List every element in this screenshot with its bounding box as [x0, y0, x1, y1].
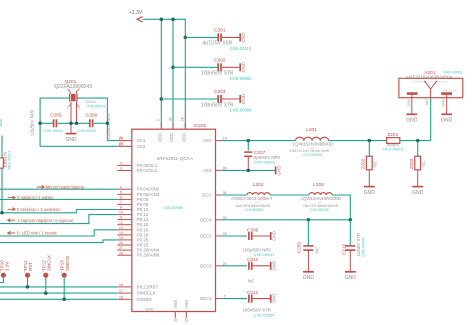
svg-text:12p/50V NP0: 12p/50V NP0 [30, 109, 35, 136]
svg-text:15: 15 [119, 236, 123, 240]
test point TP12 SWCLK [41, 255, 51, 295]
svg-text:13: 13 [119, 226, 123, 230]
svg-text:C211: C211 [247, 257, 258, 263]
svg-text:0- LED sviti / 1-nesviti: 0- LED sviti / 1-nesviti [17, 230, 57, 235]
svg-text:+3.3V: +3.3V [129, 10, 143, 16]
svg-text:28: 28 [119, 251, 123, 255]
svg-text:CIV-00018: CIV-00018 [310, 207, 330, 212]
svg-text:VBAT: VBAT [0, 117, 3, 127]
svg-text:L203: L203 [313, 182, 324, 188]
IC201 right pins [200, 137, 227, 301]
svg-text:ano: ano [241, 299, 245, 301]
capacitor C206 [77, 112, 111, 139]
test point TP13 SWDIO [60, 255, 70, 301]
junction dots on +3.3V rails [160, 18, 188, 101]
pin numbers 23 24 [119, 136, 123, 146]
svg-text:REZ-00001: REZ-00001 [383, 147, 404, 152]
junction dots RF chain [247, 139, 420, 143]
wire ANT pin to RF chain [222, 140, 296, 142]
crystal Q201 [54, 79, 105, 123]
svg-text:GND: GND [272, 231, 277, 241]
svg-text:CIV-00060: CIV-00060 [245, 207, 265, 212]
svg-text:13: 13 [185, 318, 189, 322]
junction dot resistor to row3 [0, 211, 4, 215]
svg-text:14: 14 [119, 231, 123, 235]
inductor L202 [231, 182, 273, 212]
capacitor C208 [222, 227, 277, 257]
power symbol +3.3V [129, 10, 143, 22]
svg-text:GND: GND [442, 99, 446, 107]
capacitor C207 shunt [244, 141, 280, 171]
svg-text:IOB-00080: IOB-00080 [164, 205, 184, 210]
svg-text:C202: C202 [214, 57, 226, 63]
test point TP10 3.3V [0, 260, 10, 283]
capacitor C201 [185, 36, 218, 38]
svg-text:NC: NC [314, 247, 319, 253]
svg-text:ano: ano [241, 237, 245, 239]
svg-text:CXE-00096: CXE-00096 [361, 238, 365, 257]
svg-text:2: 2 [120, 162, 122, 166]
svg-text:3: 3 [120, 167, 122, 171]
wire crystal cap row [40, 122, 107, 124]
svg-text:GND: GND [272, 294, 277, 304]
svg-text:0-nabijeni / 1-nabito: 0-nabijeni / 1-nabito [17, 195, 54, 200]
svg-text:C201: C201 [214, 27, 226, 33]
inductor L203 [301, 182, 342, 212]
svg-text:GND: GND [407, 99, 411, 107]
svg-text:0-stisknuto / 1-uvolneno: 0-stisknuto / 1-uvolneno [17, 207, 61, 212]
svg-text:ANT: ANT [425, 99, 429, 106]
svg-text:GND: GND [412, 190, 424, 196]
wire SWDIO row to pin18 [0, 298, 117, 300]
wire DCC pin 31 to L202 [222, 194, 247, 196]
wire signal row 5 - LED to pin13 [0, 230, 117, 236]
svg-text:6: 6 [120, 196, 122, 200]
svg-text:ANT: ANT [203, 138, 212, 143]
wire SWDCLK row to pin17 [0, 292, 117, 294]
svg-text:1u/50V X7R: 1u/50V X7R [356, 233, 361, 257]
svg-text:C210: C210 [342, 243, 347, 254]
svg-text:11: 11 [119, 216, 123, 220]
IC201 bottom VSS pins [173, 300, 189, 322]
svg-text:Z203: Z203 [409, 158, 414, 169]
svg-text:GND: GND [364, 190, 376, 196]
wire RST row to pin16 [0, 286, 117, 288]
svg-text:CXE-00041: CXE-00041 [254, 252, 275, 257]
svg-text:GND: GND [441, 118, 453, 124]
antenna A201 [399, 70, 463, 98]
svg-text:29: 29 [174, 318, 178, 322]
svg-text:5: 5 [120, 190, 122, 194]
svg-text:DEC2: DEC2 [200, 263, 212, 268]
ground symbol antenna left [406, 95, 418, 124]
svg-text:C204: C204 [214, 89, 226, 95]
svg-text:REZ-00001: REZ-00001 [7, 151, 11, 170]
resistor R1 left edge (cut off) [0, 117, 11, 213]
svg-text:LINK G.012.B: LINK G.012.B [442, 91, 457, 93]
svg-text:CXE-00031: CXE-00031 [77, 129, 96, 133]
svg-text:DEC4: DEC4 [200, 217, 212, 222]
svg-text:CXE-00084: CXE-00084 [230, 76, 252, 81]
capacitor C205 [30, 109, 64, 136]
svg-text:SWDCLK: SWDCLK [137, 291, 156, 296]
svg-text:SWDIO: SWDIO [137, 297, 152, 302]
svg-text:GND: GND [145, 307, 153, 311]
junction dots crystal row [38, 122, 109, 126]
wire DEC4 pin 30 row [222, 218, 352, 222]
svg-text:L201: L201 [306, 127, 317, 133]
svg-text:3.3V: 3.3V [5, 262, 10, 271]
svg-text:ano: ano [211, 100, 215, 102]
svg-text:CXE-00031: CXE-00031 [44, 129, 63, 133]
svg-text:CXE-00084: CXE-00084 [230, 108, 252, 113]
svg-text:GND: GND [65, 137, 77, 143]
wire L201 to Z201 [329, 140, 386, 142]
capacitor C209 NC shunt [296, 220, 319, 281]
wire signal row 2 - charging flag to pin6 [0, 195, 117, 200]
svg-text:Z202: Z202 [361, 158, 366, 169]
svg-text:C212: C212 [247, 290, 259, 296]
svg-text:32: 32 [168, 117, 172, 121]
svg-text:ano: ano [211, 38, 215, 40]
svg-text:XC1: XC1 [137, 138, 146, 143]
svg-text:C206: C206 [86, 112, 98, 118]
wire signal row 1 - battery voltage measure to pin4 [0, 184, 117, 189]
svg-text:P0.30/AIN6: P0.30/AIN6 [137, 253, 160, 258]
svg-text:RST: RST [28, 262, 33, 271]
svg-text:4: 4 [120, 185, 122, 189]
svg-text:VDD: VDD [169, 133, 174, 142]
svg-text:P0.01/XL2: P0.01/XL2 [137, 168, 158, 173]
svg-text:ano: ano [211, 68, 215, 70]
svg-text:GND: GND [303, 275, 315, 281]
svg-text:DCC: DCC [202, 193, 211, 198]
svg-text:Mereni napeti baterie: Mereni napeti baterie [46, 184, 85, 189]
svg-text:50R ANTENNA 2.4GHZ BLUETOOTH: 50R ANTENNA 2.4GHZ BLUETOOTH [412, 80, 448, 83]
svg-text:9: 9 [157, 119, 161, 121]
svg-text:VSS: VSS [203, 168, 212, 173]
svg-text:C209: C209 [296, 242, 301, 253]
svg-text:GND: GND [272, 261, 277, 271]
svg-text:Q22FA12800043: Q22FA12800043 [54, 84, 92, 90]
svg-text:VSS: VSS [184, 300, 189, 309]
ground symbol antenna right [441, 95, 453, 124]
svg-text:IC201: IC201 [194, 123, 207, 129]
test point TP11 RST [23, 260, 33, 289]
wire XC1 net: crystal pin1 to left rail and cap row [40, 98, 132, 146]
svg-text:26: 26 [119, 241, 123, 245]
svg-text:4u7/25V X5R: 4u7/25V X5R [202, 41, 232, 47]
svg-text:4: 4 [79, 106, 81, 110]
wire signal row 3 - button to pin8 [0, 207, 117, 213]
svg-text:ASMCI-0603-100M-T: ASMCI-0603-100M-T [231, 196, 273, 201]
ground symbol below crystal [65, 123, 77, 143]
svg-text:SWDIO: SWDIO [65, 255, 70, 271]
wire +3.3V rail [143, 19, 186, 126]
svg-text:CIV-00004: CIV-00004 [303, 152, 323, 157]
svg-text:CXE-00110: CXE-00110 [230, 46, 252, 51]
svg-text:16: 16 [181, 117, 185, 121]
svg-text:10: 10 [119, 211, 123, 215]
svg-text:24: 24 [119, 142, 123, 146]
svg-text:12: 12 [119, 221, 123, 225]
svg-text:27: 27 [119, 246, 123, 250]
wire VSS pin 20 to ground [222, 165, 282, 176]
svg-text:NC: NC [248, 279, 254, 284]
inductor L201 [289, 127, 333, 157]
svg-text:17: 17 [119, 289, 123, 293]
wire Z201 to antenna feed [400, 98, 431, 141]
capacitor C204 [161, 98, 218, 100]
svg-text:DEC3: DEC3 [200, 234, 212, 239]
capacitor C202 [173, 66, 218, 68]
svg-text:GND: GND [345, 275, 357, 281]
svg-text:CXD-00026: CXD-00026 [254, 159, 276, 164]
wire L202 to L203 [270, 194, 309, 196]
svg-text:CXE-00054: CXE-00054 [254, 313, 275, 318]
svg-text:NC: NC [421, 161, 426, 167]
svg-text:12p/50V NP0: 12p/50V NP0 [106, 113, 111, 140]
svg-text:1-zapnuto napajeni / 0-vypnout: 1-zapnuto napajeni / 0-vypnout [17, 218, 74, 223]
svg-text:C208: C208 [247, 227, 259, 233]
svg-text:GND: GND [241, 61, 246, 72]
wire signal row 4 - power enable to pin10 [0, 215, 117, 224]
capacitor C211 NC [222, 257, 277, 284]
svg-text:23: 23 [119, 137, 123, 141]
svg-text:DEC1: DEC1 [200, 296, 212, 301]
svg-text:C205: C205 [50, 112, 62, 118]
resistor Z202 NC shunt [361, 141, 378, 196]
op-amp U1 - microcontroller IC201 nRF52811-QCAA body [132, 123, 216, 311]
svg-text:VDD: VDD [157, 133, 162, 142]
svg-text:GND: GND [241, 93, 246, 104]
IC201 left pins [117, 137, 160, 302]
svg-text:8: 8 [120, 206, 122, 210]
wire signal row 6 to pin15 [0, 240, 117, 243]
svg-text:GND: GND [277, 165, 282, 176]
wire XC2 net: crystal pin3 to right rail [77, 98, 132, 141]
resistor Z201 0R [383, 132, 404, 152]
capacitor C212 [222, 290, 277, 318]
svg-text:L202: L202 [253, 182, 264, 188]
capacitor C210 1u shunt [342, 220, 366, 281]
svg-text:16: 16 [119, 283, 123, 287]
svg-text:VSS: VSS [173, 300, 178, 309]
svg-text:Z201: Z201 [387, 132, 398, 138]
svg-text:SWCLK: SWCLK [47, 255, 52, 271]
svg-text:GND: GND [241, 32, 246, 43]
svg-text:7: 7 [120, 201, 122, 205]
resistor Z203 NC shunt [409, 141, 426, 196]
svg-text:LQW15AN3N9B00D: LQW15AN3N9B00D [293, 141, 333, 146]
wire L203 down to DEC4 row [332, 195, 350, 220]
svg-text:GND: GND [406, 118, 418, 124]
svg-text:NC: NC [373, 161, 378, 167]
svg-text:P0.21/RST: P0.21/RST [137, 284, 159, 289]
svg-text:nRF52811-QCAA: nRF52811-QCAA [157, 156, 194, 161]
svg-text:VDD: VDD [181, 133, 186, 142]
IC201 top VDD pins [157, 117, 187, 142]
svg-text:XTA-00013: XTA-00013 [87, 104, 105, 108]
svg-text:18: 18 [119, 295, 123, 299]
svg-text:LQW15AN15NG00D: LQW15AN15NG00D [301, 196, 342, 201]
svg-text:XC2: XC2 [137, 144, 146, 149]
